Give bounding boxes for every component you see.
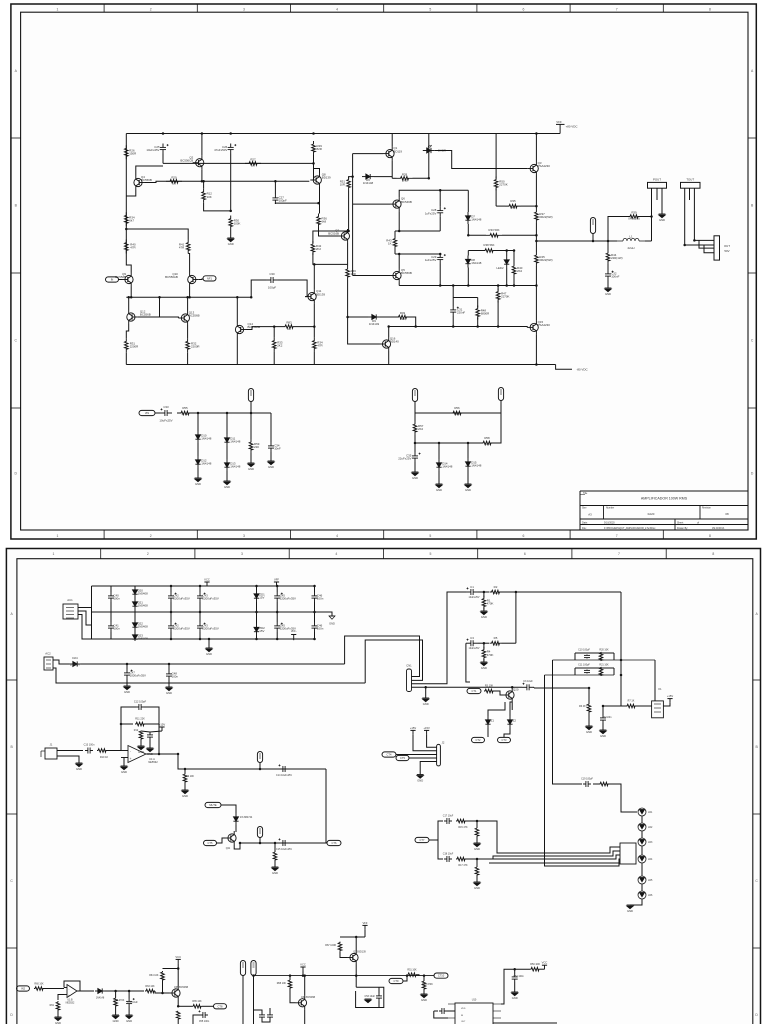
svg-text:GND: GND [465, 488, 471, 492]
svg-text:D24: D24 [72, 656, 78, 660]
svg-text:4: 4 [336, 7, 338, 11]
wire tr vert [515, 592, 517, 643]
junction TOUT1 [683, 244, 686, 247]
node CTRL1 [467, 688, 481, 693]
connector TOUT [681, 177, 701, 188]
wire TP1 stub [592, 234, 594, 242]
svg-text:Size: Size [582, 508, 587, 510]
junction sc1 a [197, 412, 200, 415]
wire Q13 bot [187, 325, 189, 338]
svg-text:15V: 15V [259, 596, 264, 600]
wire b1 bot rail [92, 638, 316, 640]
svg-text:1K: 1K [251, 164, 255, 168]
svg-text:BC556B: BC556B [140, 313, 151, 317]
ground b1 right [329, 615, 335, 617]
wire CN2 p2 [396, 754, 437, 756]
junction Q13t [186, 296, 189, 299]
resistor R39 [620, 211, 648, 221]
resistor R63 [145, 989, 155, 993]
wire K1 right [663, 703, 670, 706]
resistor R15 [456, 819, 466, 823]
junction Q2e [201, 180, 204, 183]
wire R9 top [184, 769, 186, 773]
wire c40 leads [110, 586, 112, 592]
wire Q15 base row [389, 326, 528, 329]
capacitor C42a [168, 592, 190, 602]
wire POUT pin1 [651, 188, 653, 216]
svg-text:Q21: Q21 [226, 847, 231, 850]
wire loop right [651, 217, 653, 242]
resistor R55 [177, 406, 193, 416]
junction TP1 [592, 240, 595, 243]
diode D8 [465, 256, 481, 268]
transistor Q7 BC516B [328, 229, 349, 243]
wire ct9 link [403, 976, 407, 981]
resistor R58 [479, 436, 495, 446]
svg-text:CT7: CT7 [420, 838, 425, 842]
svg-text:C13 100n: C13 100n [84, 744, 95, 747]
svg-text:R68 10K: R68 10K [277, 982, 287, 985]
svg-text:2K2: 2K2 [402, 179, 408, 183]
svg-text:0R8(1W): 0R8(1W) [628, 217, 640, 221]
junction sc2 c [467, 442, 470, 445]
svg-text:R7 1K: R7 1K [628, 700, 635, 703]
svg-text:22R(1W): 22R(1W) [611, 256, 623, 260]
svg-text:1N4148: 1N4148 [471, 464, 482, 468]
resistor R16 [475, 828, 479, 836]
wire tr row1 [447, 591, 466, 593]
junction Q10c [188, 296, 191, 299]
LED LD2 [638, 823, 646, 831]
wire R35 l [496, 205, 505, 207]
svg-text:MUTE: MUTE [209, 803, 217, 807]
connector OUT [714, 236, 720, 260]
LED LD4 [638, 855, 646, 863]
svg-text:R12: R12 [134, 729, 139, 732]
wire loop left [608, 217, 613, 242]
resistor R34 [125, 212, 135, 226]
junction R33t [273, 325, 276, 328]
wire out down [178, 754, 326, 769]
wire Q11 coll [313, 264, 315, 289]
svg-text:R6 4K7: R6 4K7 [579, 705, 588, 708]
wire TOUT pin2 [689, 188, 691, 200]
capacitor C56 [259, 1013, 265, 1019]
svg-text:1: 1 [57, 534, 59, 538]
wire row2 [145, 181, 309, 182]
svg-text:R33 50K: R33 50K [489, 228, 500, 232]
wire rail to Q9 [126, 252, 131, 273]
junction bt b [128, 990, 131, 993]
resistor R10 [97, 749, 107, 753]
svg-text:1N4148: 1N4148 [442, 465, 453, 469]
svg-text:IN: IN [111, 278, 114, 282]
wire R10 to U1 [107, 750, 121, 752]
svg-text:-: - [69, 987, 70, 991]
wire Q7 coll [347, 229, 349, 231]
junction R48b [476, 325, 479, 328]
transistor Q14 BC546AB [235, 322, 260, 336]
wire CN2 p4 [420, 762, 436, 775]
svg-text:0A20: 0A20 [648, 512, 655, 516]
diode D7 [465, 212, 481, 224]
wire R40b bot [513, 275, 515, 286]
svg-text:5: 5 [429, 534, 431, 538]
wire lb row2 [466, 858, 493, 860]
svg-text:R69 470K: R69 470K [422, 983, 433, 986]
wire AC1 p1 [78, 586, 92, 608]
testpoint TP6 [257, 827, 262, 838]
svg-text:GND: GND [329, 622, 335, 626]
resistor R9 [183, 773, 187, 783]
diode ZD2 [254, 624, 265, 636]
svg-text:GND: GND [600, 734, 606, 738]
wire R59 gnd [250, 453, 252, 463]
testpoint TP1 [590, 218, 595, 234]
svg-text:10R: 10R [340, 183, 345, 187]
svg-text:File:: File: [582, 527, 587, 530]
op-amp U1:B [67, 985, 77, 998]
wire R1 gnd [483, 608, 485, 612]
svg-text:JM.CNOVA: JM.CNOVA [712, 527, 725, 530]
svg-text:GND: GND [182, 794, 188, 798]
wire R35 r [521, 205, 536, 207]
wire L1 right [645, 240, 652, 242]
wire Q2 emitter [201, 170, 203, 182]
junction R42b [313, 263, 316, 266]
svg-text:R3 10K: R3 10K [485, 685, 494, 688]
junction -80 [535, 363, 538, 366]
svg-text:2200uFx35V: 2200uFx35V [280, 597, 296, 601]
junction b2 a [126, 663, 129, 666]
svg-text:22uFx25V: 22uFx25V [398, 457, 411, 461]
wire R44-C32 [607, 264, 609, 270]
wire R12 gnd [140, 739, 142, 746]
svg-text:470K: 470K [487, 602, 494, 606]
wire R45 bot [535, 266, 537, 320]
transistor Q5 BC556B [390, 268, 412, 282]
wire CN2 p3 [409, 757, 437, 759]
wire D13-gnd [226, 471, 228, 481]
svg-text:PSA4230: PSA4230 [538, 164, 551, 168]
node CT7 [415, 837, 429, 842]
wire C34 col [270, 413, 272, 442]
resistor R19 [599, 782, 609, 786]
wire ledc3 [641, 846, 643, 855]
testpoint TP7 [240, 961, 245, 976]
node MUTE [205, 802, 221, 807]
junction R6 [588, 687, 591, 690]
capacitor C10 [584, 655, 590, 659]
junction q33e [355, 974, 358, 977]
junction R3b [483, 642, 486, 645]
wire R46 bottom [347, 280, 349, 316]
svg-text:GND: GND [147, 752, 153, 756]
ground R61 [55, 1017, 62, 1024]
wire pwr link2 [150, 731, 162, 732]
diode D11 [224, 434, 240, 446]
wire Q7 emit [347, 243, 349, 264]
svg-text:GND: GND [248, 467, 254, 471]
wire R6 bot [588, 713, 590, 726]
capacitor C43a [197, 592, 219, 602]
resistor R69 [422, 981, 426, 989]
wire Q11 emit [313, 304, 315, 338]
wire R45 top [535, 241, 537, 252]
wire Q1 up [391, 134, 393, 147]
wire u10 in3 [434, 1011, 448, 1018]
wire R16 gnd [476, 836, 478, 843]
diode D13 [224, 459, 240, 471]
wire left rail [125, 134, 127, 252]
transistor Q3 PSA4230 [527, 161, 550, 175]
svg-text:CT3: CT3 [502, 738, 507, 742]
diode D21 [132, 600, 148, 608]
ground sc2 b [436, 484, 443, 492]
wire tr row2c [502, 642, 516, 644]
svg-text:C3: C3 [470, 636, 474, 640]
ground box [365, 999, 372, 1003]
wire tr row1b [478, 591, 489, 593]
svg-text:C53 10uF: C53 10uF [365, 995, 376, 998]
junction R16 [476, 820, 479, 823]
wire ZD1 leads [256, 586, 258, 590]
wire R63 right [155, 991, 169, 993]
wire Q15 down [535, 334, 537, 364]
svg-text:1N4148: 1N4148 [230, 465, 241, 469]
node CT5 [204, 840, 217, 845]
svg-text:BC556AB: BC556AB [165, 275, 178, 279]
wire c40 b [110, 602, 112, 612]
wire bt1 [44, 988, 64, 990]
testpoint TP5 [257, 752, 262, 763]
wire D6 right [374, 176, 392, 178]
svg-text:99K: 99K [400, 317, 405, 321]
svg-text:L1: L1 [629, 235, 633, 239]
resistor R62 [114, 997, 118, 1007]
power VCC [204, 577, 210, 586]
power +15b [410, 726, 417, 735]
svg-text:GND: GND [224, 485, 230, 489]
resistor R64 [161, 971, 165, 981]
wire Q1 base [353, 153, 383, 155]
wire c41 leads [110, 612, 112, 622]
capacitor C15 [279, 838, 290, 846]
svg-text:6: 6 [524, 552, 526, 556]
resistor R18 [475, 867, 479, 875]
svg-text:+15V: +15V [667, 694, 674, 698]
wire u10 in [434, 1010, 438, 1012]
junction row285b [467, 284, 470, 287]
wire D14 gnd [438, 471, 440, 484]
capacitor C16 [147, 732, 153, 740]
svg-text:C11 100pF: C11 100pF [578, 664, 590, 667]
transistor Q11 BD139 [305, 289, 325, 303]
wire R61 gnd [57, 1011, 59, 1017]
wire b1 top rail [92, 585, 316, 587]
capacitor C32 [605, 270, 620, 280]
svg-text:1N5408: 1N5408 [138, 637, 149, 641]
capacitor C46a [312, 592, 324, 602]
capacitor C29 [425, 254, 446, 264]
svg-text:VIN: VIN [145, 411, 149, 415]
power +15d [159, 722, 166, 731]
wire box3 [378, 987, 380, 993]
svg-text:R21 10K: R21 10K [599, 664, 609, 667]
junction q33c [355, 936, 358, 939]
wire Q6 coll [399, 190, 468, 197]
svg-text:CT8: CT8 [218, 1004, 223, 1008]
wire lbw4 [489, 863, 619, 866]
wire Q3 up [535, 134, 537, 162]
junction row285c [505, 284, 508, 287]
svg-text:47R: 47R [317, 344, 322, 348]
resistor R29c [312, 141, 322, 155]
wire mute wire [221, 805, 236, 813]
resistor R34b [313, 338, 323, 352]
junction fb2 [120, 723, 123, 726]
transistor Q34 [296, 996, 307, 1010]
svg-text:8: 8 [712, 552, 714, 556]
resistor R47 [496, 289, 509, 303]
wire POUT pin2 [656, 188, 658, 200]
svg-text:Q35 BC546B: Q35 BC546B [174, 986, 188, 989]
svg-text:8: 8 [709, 7, 711, 11]
wire b1 left [91, 586, 93, 639]
junction snub1 [620, 659, 623, 662]
svg-text:5: 5 [429, 7, 431, 11]
wire CN1 gnd stub [425, 687, 427, 698]
title block [580, 491, 748, 530]
power VCC2 [542, 961, 548, 970]
svg-text:CT4: CT4 [387, 753, 392, 757]
ground b2 b [166, 687, 173, 695]
svg-text:GND: GND [436, 488, 442, 492]
svg-text:LD2: LD2 [648, 826, 653, 829]
transistor Q4 BC556B [134, 175, 152, 189]
junction q21 [239, 842, 242, 845]
wire R7 l [603, 705, 625, 707]
svg-text:VCC: VCC [542, 961, 548, 965]
svg-text:1uFx25V: 1uFx25V [425, 211, 437, 215]
svg-text:10K: 10K [207, 195, 212, 199]
svg-text:6: 6 [523, 7, 525, 11]
junction CN1 gnd [424, 686, 427, 689]
svg-text:2270K: 2270K [499, 183, 507, 187]
diode D20 [132, 588, 148, 596]
junction sc1 c [250, 412, 253, 415]
resistor R14 [273, 852, 277, 860]
svg-text:GND: GND [481, 666, 487, 670]
svg-text:1N4148: 1N4148 [230, 440, 241, 444]
svg-text:CT6: CT6 [332, 841, 337, 845]
node CT8 [214, 1004, 227, 1009]
svg-text:BC556B: BC556B [189, 314, 200, 318]
wire out right [289, 768, 326, 770]
resistor R40 [125, 240, 136, 254]
wire R49 r [411, 317, 416, 327]
wire b2 main [81, 663, 345, 665]
wire C25 bottom [162, 154, 164, 164]
svg-text:R58: R58 [484, 436, 490, 440]
wire R32b bot [187, 352, 189, 364]
junction C42 m [170, 611, 173, 614]
junction rail L [252, 974, 255, 977]
resistor R68 [288, 980, 292, 988]
svg-text:J2: J2 [442, 740, 445, 744]
ground led col [627, 905, 634, 913]
junction R35r [535, 205, 538, 208]
wire snub1 e2 [613, 653, 615, 660]
diode Z1 [485, 716, 494, 728]
wire bundle A [345, 636, 420, 677]
svg-text:GND: GND [659, 218, 665, 222]
wire box1 [356, 987, 384, 1007]
capacitor C41 [108, 622, 120, 632]
svg-text:Z3 ZM4744: Z3 ZM4744 [240, 816, 253, 819]
wire C52 bot [514, 982, 516, 992]
wire Q16 up [388, 327, 390, 338]
wire b1 right end [315, 612, 332, 616]
wire AC1 p2 [78, 611, 92, 625]
junction C46 t [313, 585, 316, 588]
svg-text:+15V: +15V [159, 722, 166, 726]
junction TP6 [259, 842, 262, 845]
junction ZD t [255, 585, 258, 588]
wire bt2 [105, 990, 144, 992]
svg-text:VFF: VFF [274, 577, 279, 581]
svg-text:PSA4230: PSA4230 [538, 323, 551, 327]
capacitor C57 [267, 1013, 273, 1019]
junction R64 [161, 992, 164, 995]
ground b1 [206, 648, 213, 656]
svg-text:-: - [130, 750, 131, 754]
wire R14 top [274, 843, 276, 852]
wire LED2 bot [506, 268, 508, 286]
wire Q35 emit [177, 1000, 179, 1006]
ground U1b [138, 746, 145, 754]
junction C31t [452, 284, 455, 287]
junction R28r [428, 177, 431, 180]
svg-text:150R: 150R [129, 151, 136, 155]
svg-text:LD6: LD6 [648, 894, 653, 897]
wire to CT6 [289, 842, 327, 844]
diode D23 [132, 633, 148, 641]
svg-text:2200R: 2200R [130, 344, 139, 348]
wire C35 gnd [414, 462, 416, 472]
wire AC2 p1 [53, 660, 69, 664]
junction OUTnode [535, 240, 538, 243]
svg-text:R67 100R: R67 100R [325, 944, 336, 947]
junction rail c [312, 132, 315, 135]
svg-text:GND: GND [166, 691, 172, 695]
wire C43 l3 [199, 632, 201, 639]
wire L1 lead [608, 240, 617, 242]
wire D10-D12 [197, 443, 199, 456]
transistor Q6 BC546B [390, 197, 412, 211]
wire D14 col [438, 443, 440, 459]
wire snub2 e2 [613, 668, 615, 675]
capacitor C52 [512, 974, 518, 982]
junction Q8e [317, 202, 320, 205]
transistor Q15 PSA4230 [527, 320, 550, 334]
svg-text:10uFx25V: 10uFx25V [469, 596, 480, 599]
svg-text:BC556CB: BC556CB [180, 158, 193, 162]
ground R6 [586, 726, 593, 734]
svg-text:GND: GND [113, 1019, 119, 1023]
junction TOUT3 [693, 239, 696, 242]
LED OVER [423, 145, 446, 153]
